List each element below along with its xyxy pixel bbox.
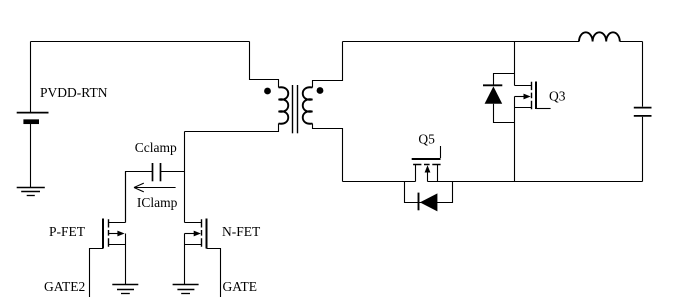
wire bottom rail right segment [428,181,643,183]
wire clamp node vertical [184,132,186,223]
wire primary bottom lead [185,124,279,132]
svg-text:GATE2: GATE2 [44,279,85,294]
wire right edge down [642,42,644,107]
wire top rail right [343,41,580,43]
transistor N-FET [185,219,207,249]
svg-text:N-FET: N-FET [222,224,261,239]
wire P-FET source down [125,245,127,285]
ground (N-FET source) [173,285,199,294]
transistor P-FET [103,219,126,249]
battery PVDD-RTN [17,113,49,122]
wire primary top feed [250,42,279,88]
wire inductor to corner [620,41,643,43]
wire Q3 source to rail [514,108,516,182]
wire Cclamp right [161,171,185,173]
ground (P-FET source) [112,285,138,294]
current arrow IClamp [134,183,176,192]
transistor Q3 [515,74,551,110]
capacitor Cclamp [153,163,161,181]
wire P-FET drain up [125,172,127,223]
wire Cclamp left [126,172,153,223]
transformer core [293,85,298,133]
wire bottom rail left segment [343,181,416,183]
wire N-FET source down [184,245,186,285]
transformer secondary winding [303,87,313,124]
transformer primary winding [279,87,289,124]
wire Q3 branch top [514,42,516,74]
polarity dot primary [264,88,271,95]
svg-text:Cclamp: Cclamp [135,140,177,155]
wire N-FET gate [207,249,221,297]
inductor L1 [579,32,620,41]
wire top-left rail [31,41,250,43]
ground (battery) [17,188,45,196]
svg-text:Q3: Q3 [549,88,566,103]
capacitor C_out [634,108,652,116]
diode body diode of Q5 [405,182,453,212]
svg-text:Q5: Q5 [418,132,435,147]
wire battery feed [30,42,32,113]
polarity dot secondary [317,87,324,94]
svg-text:PVDD-RTN: PVDD-RTN [40,85,108,100]
wire secondary bottom lead [313,124,343,182]
svg-text:IClamp: IClamp [137,195,178,210]
wire secondary top lead [313,42,343,88]
transistor Q5 [412,146,441,182]
wire P-FET gate [90,249,104,297]
wire battery to ground [30,124,32,188]
svg-text:GATE: GATE [223,279,258,294]
diode body diode of Q3 [483,74,515,123]
svg-text:P-FET: P-FET [49,224,86,239]
wire cap bottom [642,117,644,182]
